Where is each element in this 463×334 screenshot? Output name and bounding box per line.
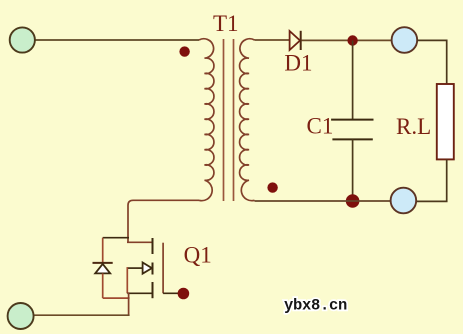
junction top [347,35,357,45]
svg-text:R.L: R.L [396,114,431,139]
capacitor C1 [331,120,373,140]
transistor Q1 [127,238,180,298]
wire secondary bottom rail [255,200,391,202]
gate terminal dot [178,288,190,300]
wire body diode bottom link [103,297,130,299]
polarity dot secondary [267,182,277,192]
gate lead [163,292,180,294]
terminal output bottom [391,188,417,214]
wire body diode top link [103,237,129,239]
polarity dot primary [179,46,189,56]
transformer T1 secondary winding [240,39,255,201]
svg-text:D1: D1 [284,50,312,75]
diode D1 [290,31,301,50]
svg-text:T1: T1 [213,11,239,36]
svg-text:Q1: Q1 [184,242,212,267]
body diode of Q1 [93,238,113,298]
wire C1 bottom to bottom rail [352,139,354,201]
junction bottom [346,194,360,208]
resistor R.L [437,84,454,159]
transformer T1 core [223,39,225,201]
wire diode cathode to output terminal [302,39,392,41]
channel segment top [152,238,154,254]
wire primary bottom to Q1 drain [128,200,199,242]
channel segment bottom [152,282,154,298]
wire bottom rail [33,314,130,316]
wire junction down to C1 [352,41,354,120]
source lead [127,292,152,294]
substrate to source tie [126,267,128,293]
wire secondary top to diode [255,39,290,41]
channel segment middle [152,263,154,275]
drain lead [127,241,153,243]
substrate arrow [143,263,152,274]
terminal output top [392,27,418,53]
wire top rail from input terminal to T1 primary [34,39,199,41]
terminal input bottom [8,303,34,329]
terminal input top [10,27,35,52]
wire load bottom to output terminal [416,159,446,201]
substrate arrow lead [127,267,142,269]
transformer T1 primary winding [199,39,214,201]
wire source to bottom rail [128,292,130,315]
gate bar [162,243,164,294]
svg-text:ybx8.cn: ybx8.cn [284,297,347,315]
svg-text:C1: C1 [307,114,334,139]
wire output top to load R.L [417,40,447,84]
